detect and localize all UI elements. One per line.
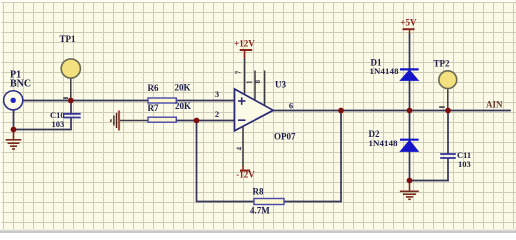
svg-text:103: 103 [458, 159, 471, 169]
svg-text:2: 2 [215, 109, 219, 119]
svg-text:+5V: +5V [400, 18, 417, 28]
svg-text:1: 1 [246, 80, 254, 84]
svg-text:1N4148: 1N4148 [369, 138, 399, 148]
svg-text:20K: 20K [175, 101, 191, 111]
svg-text:R6: R6 [148, 83, 159, 93]
svg-text:AIN: AIN [486, 100, 503, 110]
svg-text:4.7M: 4.7M [250, 206, 270, 216]
svg-text:TP1: TP1 [60, 34, 77, 44]
svg-text:1N4148: 1N4148 [370, 66, 400, 76]
svg-text:20K: 20K [175, 82, 191, 92]
svg-text:BNC: BNC [10, 79, 31, 90]
svg-text:+12V: +12V [234, 39, 255, 49]
svg-text:TP2: TP2 [434, 59, 451, 69]
svg-text:OP07: OP07 [274, 132, 296, 142]
svg-text:8: 8 [254, 79, 262, 83]
svg-text:4: 4 [235, 147, 243, 151]
svg-text:-12V: -12V [236, 170, 255, 180]
svg-text:3: 3 [215, 89, 219, 99]
svg-text:6: 6 [289, 101, 293, 111]
svg-text:R7: R7 [148, 103, 159, 113]
svg-text:U3: U3 [275, 80, 286, 90]
svg-text:103: 103 [52, 119, 65, 129]
svg-text:7: 7 [234, 70, 242, 74]
svg-text:R8: R8 [253, 187, 264, 197]
